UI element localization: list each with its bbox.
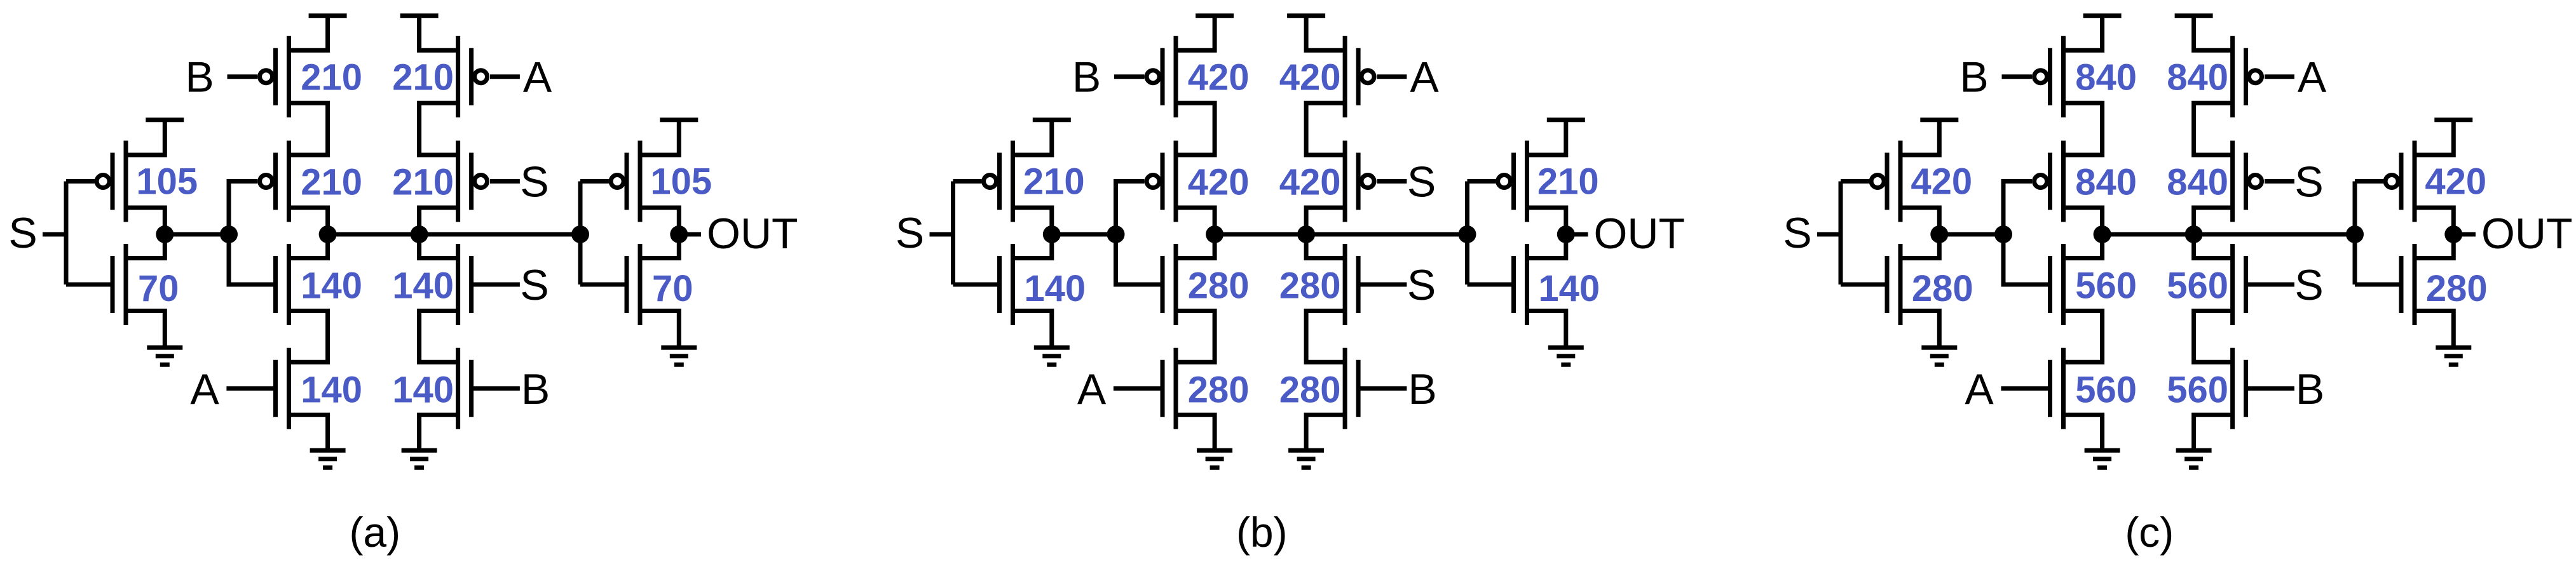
svg-text:140: 140 [1024, 268, 1086, 309]
svg-text:280: 280 [2426, 268, 2488, 309]
wire inverter1 gate bus [64, 182, 69, 285]
nmos Q2a (input inverter pull-down) [112, 244, 126, 325]
wire gate B to Q10 [2247, 386, 2294, 391]
node n6: OUT [1557, 225, 1575, 243]
wire gate S to Q8 [2265, 179, 2294, 184]
svg-text:S: S [520, 158, 549, 206]
nmos Q10c (gate B, right branch bottom) [2233, 348, 2246, 429]
VDD supply [1287, 13, 1325, 18]
gate bubble Q1c [1871, 175, 1884, 188]
ground [310, 450, 346, 467]
svg-text:S: S [896, 209, 924, 257]
svg-text:A: A [2298, 53, 2327, 102]
ground [2085, 450, 2120, 467]
VDD supply [1920, 117, 1958, 122]
wire gate A to Q7 [490, 74, 520, 79]
wire n1 to n2 [1939, 232, 2003, 237]
wire Sbar to gates of Q4 and Q5 [2003, 182, 2050, 285]
gate bubble Q1a [97, 175, 109, 188]
svg-text:S: S [1783, 209, 1811, 257]
nmos Q9b (gate S, right branch) [1345, 244, 1358, 325]
wire Q5 drain to node n3 [2064, 234, 2102, 258]
svg-text:140: 140 [301, 265, 362, 307]
svg-text:280: 280 [1188, 265, 1250, 307]
svg-text:S: S [1407, 158, 1436, 206]
gate bubble Q7c [2249, 70, 2262, 83]
gate bubble Q4b [1147, 175, 1159, 188]
nmos Q9c (gate S, right branch) [2233, 244, 2246, 325]
svg-text:105: 105 [136, 161, 198, 203]
svg-text:210: 210 [301, 162, 362, 203]
pmos Q8c (gate S, right branch) [2233, 141, 2246, 222]
wire Q9 drain to node n4 [2194, 234, 2233, 258]
nmos Q5c (gate Sbar, left branch) [2050, 244, 2064, 325]
ground [1288, 450, 1324, 467]
wire Q9 source to Q10 drain [419, 311, 458, 363]
wire inverter2 gate bus [2353, 182, 2357, 285]
VDD supply [1196, 13, 1234, 18]
svg-text:S: S [520, 261, 549, 309]
svg-text:B: B [2296, 365, 2324, 413]
svg-text:OUT: OUT [707, 210, 798, 258]
wire gate of Q11 [2355, 179, 2383, 184]
pmos Q1c (input inverter pull-up) [1887, 141, 1900, 222]
pmos Q7a (gate A, right branch top) [458, 36, 472, 117]
wire gate of Q12 [580, 283, 627, 287]
wire Q4 drain to node n3 [1176, 208, 1215, 234]
svg-text:420: 420 [1911, 161, 1972, 203]
wire Q6 source to ground [2064, 415, 2102, 450]
svg-text:140: 140 [392, 265, 454, 307]
ground [2176, 450, 2212, 467]
node n3: left branch output [1206, 225, 1223, 243]
node n1: inverter1 output [1930, 225, 1948, 243]
wire Q5 drain to node n3 [289, 234, 328, 258]
wire Q5 source to Q6 drain [1176, 311, 1215, 363]
svg-text:(a): (a) [349, 509, 400, 556]
wire gate of Q1 [953, 179, 982, 184]
VDD supply [660, 117, 698, 122]
gate bubble Q1b [984, 175, 997, 188]
nmos Q10a (gate B, right branch bottom) [458, 348, 472, 429]
wire VDD to Q3 source [289, 16, 328, 50]
ground [402, 450, 437, 467]
ground [1034, 347, 1070, 365]
nmos Q10b (gate B, right branch bottom) [1345, 348, 1358, 429]
wire Q8 drain to node n4 [1306, 208, 1345, 234]
wire gate of Q11 [1468, 179, 1496, 184]
pmos Q3b (gate B, left branch top) [1162, 36, 1176, 117]
nmos Q2b (input inverter pull-down) [1000, 244, 1013, 325]
ground [1921, 347, 1957, 365]
svg-text:B: B [1072, 53, 1101, 102]
VDD supply [1547, 117, 1585, 122]
wire Q5 source to Q6 drain [2064, 311, 2102, 363]
nmos Q6a (gate A, left branch bottom) [276, 348, 289, 429]
svg-text:S: S [1407, 261, 1436, 309]
VDD supply [309, 13, 347, 18]
wire VDD to Q11 source [640, 120, 679, 155]
wire Q8 drain to node n4 [2194, 208, 2233, 234]
wire VDD to Q1 source [1013, 120, 1052, 155]
svg-text:B: B [1408, 365, 1436, 413]
wire Q7 drain to Q8 source [1306, 103, 1345, 155]
wire gate S to Q9 [2247, 283, 2294, 287]
node n5: inverter2 input junction [571, 225, 589, 243]
node n6: OUT [2444, 225, 2462, 243]
wire Q10 source to ground [1306, 415, 1345, 450]
svg-text:210: 210 [1537, 161, 1599, 203]
wire Sbar to gates of Q4 and Q5 [229, 182, 276, 285]
gate bubble Q11b [1498, 175, 1511, 188]
svg-text:S: S [2294, 261, 2323, 309]
wire gate A to Q7 [1377, 74, 1407, 79]
gate bubble Q4a [260, 175, 273, 188]
wire Q9 drain to node n4 [419, 234, 458, 258]
pmos Q7b (gate A, right branch top) [1345, 36, 1358, 117]
svg-text:S: S [8, 209, 37, 257]
wire VDD to Q7 source [419, 16, 458, 50]
svg-text:A: A [1077, 365, 1107, 413]
gate bubble Q7a [475, 70, 487, 83]
nmos Q5a (gate Sbar, left branch) [276, 244, 289, 325]
node n2: Sbar net junction [1107, 225, 1125, 243]
svg-text:B: B [521, 365, 550, 413]
pmos Q7c (gate A, right branch top) [2233, 36, 2246, 117]
wire gate of Q12 [2355, 283, 2401, 287]
pmos Q1a (input inverter pull-up) [112, 141, 126, 222]
wire VDD to Q1 source [1900, 120, 1939, 155]
svg-text:280: 280 [1279, 369, 1341, 410]
svg-text:A: A [1410, 53, 1439, 102]
svg-text:A: A [1965, 365, 1994, 413]
wire VDD to Q7 source [1306, 16, 1345, 50]
wire VDD to Q11 source [2415, 120, 2453, 155]
svg-text:840: 840 [2075, 57, 2137, 98]
node n2: Sbar net junction [220, 225, 238, 243]
wire S input [930, 232, 953, 237]
wire Q2 source to ground [126, 311, 165, 348]
wire Q3 drain to Q4 source [289, 103, 328, 155]
wire Q12 drain to node n6 [640, 234, 679, 258]
svg-text:210: 210 [1023, 161, 1085, 203]
wire Q5 source to Q6 drain [289, 311, 328, 363]
nmos Q6c (gate A, left branch bottom) [2050, 348, 2064, 429]
svg-text:S: S [2294, 158, 2323, 206]
wire VDD to Q3 source [2064, 16, 2102, 50]
node n4: right branch output [1297, 225, 1315, 243]
wire n1 to n2 [1052, 232, 1116, 237]
wire gate S to Q8 [1377, 179, 1407, 184]
wire inverter1 gate bus [951, 182, 955, 285]
svg-text:420: 420 [1188, 57, 1250, 98]
wire inverter2 gate bus [578, 182, 583, 285]
pmos Q11b (output inverter pull-up) [1514, 141, 1527, 222]
wire inverter2 gate bus [1465, 182, 1469, 285]
ground [147, 347, 182, 365]
svg-text:840: 840 [2167, 162, 2228, 203]
wire gate of Q2 [1841, 283, 1887, 287]
svg-text:A: A [523, 53, 552, 102]
wire gate B to Q3 [2002, 74, 2033, 79]
svg-text:560: 560 [2167, 369, 2228, 410]
svg-text:B: B [1959, 53, 1988, 102]
gate bubble Q8b [1361, 175, 1374, 188]
wire n3-n4-n5 output bus [1215, 232, 1467, 237]
ground [2436, 347, 2471, 365]
wire Q1 drain to node n1 [1013, 208, 1052, 234]
VDD supply [1033, 117, 1071, 122]
wire gate B to Q3 [228, 74, 258, 79]
wire VDD to Q7 source [2194, 16, 2233, 50]
wire gate A to Q6 [1114, 386, 1162, 391]
node n3: left branch output [319, 225, 337, 243]
svg-text:560: 560 [2075, 265, 2137, 307]
wire Q2 drain to node n1 [1900, 234, 1939, 258]
wire Q7 drain to Q8 source [2194, 103, 2233, 155]
wire VDD to Q3 source [1176, 16, 1215, 50]
nmos Q12c (output inverter pull-down) [2401, 244, 2415, 325]
gate bubble Q4c [2034, 175, 2047, 188]
wire gate B to Q3 [1114, 74, 1145, 79]
svg-text:280: 280 [1279, 265, 1341, 307]
wire Q9 source to Q10 drain [1306, 311, 1345, 363]
wire gate S to Q9 [472, 283, 520, 287]
ground [661, 347, 697, 365]
svg-text:(b): (b) [1236, 509, 1288, 556]
pmos Q8b (gate S, right branch) [1345, 141, 1358, 222]
wire S input [1817, 232, 1841, 237]
wire gate of Q1 [66, 179, 95, 184]
VDD supply [2434, 117, 2472, 122]
wire VDD to Q1 source [126, 120, 165, 155]
wire Q11 drain to node n6 [1527, 208, 1566, 234]
wire gate of Q12 [1468, 283, 1514, 287]
wire Q3 drain to Q4 source [1176, 103, 1215, 155]
node n4: right branch output [411, 225, 428, 243]
wire gate of Q2 [953, 283, 1000, 287]
pmos Q3a (gate B, left branch top) [276, 36, 289, 117]
wire Q8 drain to node n4 [419, 208, 458, 234]
wire Q9 source to Q10 drain [2194, 311, 2233, 363]
pmos Q11a (output inverter pull-up) [627, 141, 640, 222]
wire Q10 source to ground [419, 415, 458, 450]
node n4: right branch output [2185, 225, 2203, 243]
wire gate B to Q10 [472, 386, 520, 391]
ground [1197, 450, 1232, 467]
wire Q6 source to ground [289, 415, 328, 450]
wire Q12 source to ground [1527, 311, 1566, 348]
svg-text:A: A [190, 365, 219, 413]
wire gate of Q1 [1841, 179, 1869, 184]
wire Q2 source to ground [1900, 311, 1939, 348]
svg-text:B: B [185, 53, 214, 102]
VDD supply [2175, 13, 2213, 18]
pmos Q4a (gate Sbar, left branch) [276, 141, 289, 222]
wire gate A to Q6 [2001, 386, 2050, 391]
gate bubble Q11a [611, 175, 624, 188]
node n1: inverter1 output [1043, 225, 1061, 243]
wire VDD to Q11 source [1527, 120, 1566, 155]
node n1: inverter1 output [156, 225, 174, 243]
wire gate A to Q7 [2265, 74, 2294, 79]
pmos Q8a (gate S, right branch) [458, 141, 472, 222]
wire Q3 drain to Q4 source [2064, 103, 2102, 155]
wire Q10 source to ground [2194, 415, 2233, 450]
wire gate of Q11 [580, 179, 609, 184]
VDD supply [400, 13, 439, 18]
wire Q4 drain to node n3 [2064, 208, 2102, 234]
wire Q4 drain to node n3 [289, 208, 328, 234]
node n2: Sbar net junction [1994, 225, 2012, 243]
wire Q11 drain to node n6 [2415, 208, 2453, 234]
svg-text:420: 420 [2425, 161, 2486, 203]
pmos Q4b (gate Sbar, left branch) [1162, 141, 1176, 222]
svg-text:840: 840 [2075, 162, 2137, 203]
wire Q9 drain to node n4 [1306, 234, 1345, 258]
pmos Q11c (output inverter pull-up) [2401, 141, 2415, 222]
wire Q12 drain to node n6 [2415, 234, 2453, 258]
wire S input [43, 232, 66, 237]
VDD supply [2083, 13, 2122, 18]
svg-text:105: 105 [650, 161, 712, 203]
svg-text:140: 140 [301, 369, 362, 410]
VDD supply [146, 117, 184, 122]
wire Q2 drain to node n1 [1013, 234, 1052, 258]
svg-text:560: 560 [2167, 265, 2228, 307]
wire n3-n4-n5 output bus [2102, 232, 2355, 237]
svg-text:420: 420 [1188, 162, 1250, 203]
svg-text:840: 840 [2167, 57, 2228, 98]
svg-text:OUT: OUT [2481, 210, 2573, 258]
svg-text:70: 70 [652, 268, 693, 309]
wire Q2 source to ground [1013, 311, 1052, 348]
wire inverter1 gate bus [1839, 182, 1843, 285]
wire Q12 source to ground [2415, 311, 2453, 348]
wire n1 to n2 [165, 232, 229, 237]
svg-text:140: 140 [1538, 268, 1600, 309]
wire gate B to Q10 [1359, 386, 1407, 391]
pmos Q3c (gate B, left branch top) [2050, 36, 2064, 117]
svg-text:280: 280 [1188, 369, 1250, 410]
svg-text:420: 420 [1279, 162, 1341, 203]
wire Q5 drain to node n3 [1176, 234, 1215, 258]
wire Q6 source to ground [1176, 415, 1215, 450]
pmos Q1b (input inverter pull-up) [1000, 141, 1013, 222]
node n3: left branch output [2094, 225, 2111, 243]
wire Q1 drain to node n1 [126, 208, 165, 234]
gate bubble Q8a [475, 175, 487, 188]
wire Q2 drain to node n1 [126, 234, 165, 258]
wire Q12 drain to node n6 [1527, 234, 1566, 258]
gate bubble Q7b [1361, 70, 1374, 83]
svg-text:420: 420 [1279, 57, 1341, 98]
node n6: OUT [670, 225, 688, 243]
pmos Q4c (gate Sbar, left branch) [2050, 141, 2064, 222]
gate bubble Q11c [2385, 175, 2398, 188]
wire gate S to Q8 [490, 179, 520, 184]
wire gate S to Q9 [1359, 283, 1407, 287]
gate bubble Q8c [2249, 175, 2262, 188]
nmos Q6b (gate A, left branch bottom) [1162, 348, 1176, 429]
svg-text:70: 70 [138, 268, 179, 309]
wire to OUT [679, 232, 701, 237]
gate bubble Q3c [2034, 70, 2047, 83]
wire to OUT [1566, 232, 1588, 237]
svg-text:560: 560 [2075, 369, 2137, 410]
nmos Q12b (output inverter pull-down) [1514, 244, 1527, 325]
svg-text:OUT: OUT [1594, 210, 1686, 258]
nmos Q2c (input inverter pull-down) [1887, 244, 1900, 325]
svg-text:210: 210 [301, 57, 362, 98]
svg-text:(c): (c) [2125, 509, 2174, 556]
wire to OUT [2453, 232, 2476, 237]
wire gate A to Q6 [226, 386, 275, 391]
nmos Q9a (gate S, right branch) [458, 244, 472, 325]
nmos Q12a (output inverter pull-down) [627, 244, 640, 325]
wire n3-n4-n5 output bus [328, 232, 580, 237]
node n5: inverter2 input junction [2346, 225, 2364, 243]
wire Q11 drain to node n6 [640, 208, 679, 234]
wire Q7 drain to Q8 source [419, 103, 458, 155]
wire Q12 source to ground [640, 311, 679, 348]
wire gate of Q2 [66, 283, 112, 287]
gate bubble Q3a [260, 70, 273, 83]
wire Q1 drain to node n1 [1900, 208, 1939, 234]
gate bubble Q3b [1147, 70, 1159, 83]
node n5: inverter2 input junction [1459, 225, 1476, 243]
svg-text:210: 210 [392, 57, 454, 98]
svg-text:140: 140 [392, 369, 454, 410]
svg-text:210: 210 [392, 162, 454, 203]
nmos Q5b (gate Sbar, left branch) [1162, 244, 1176, 325]
svg-text:280: 280 [1912, 268, 1973, 309]
ground [1548, 347, 1584, 365]
wire Sbar to gates of Q4 and Q5 [1116, 182, 1163, 285]
